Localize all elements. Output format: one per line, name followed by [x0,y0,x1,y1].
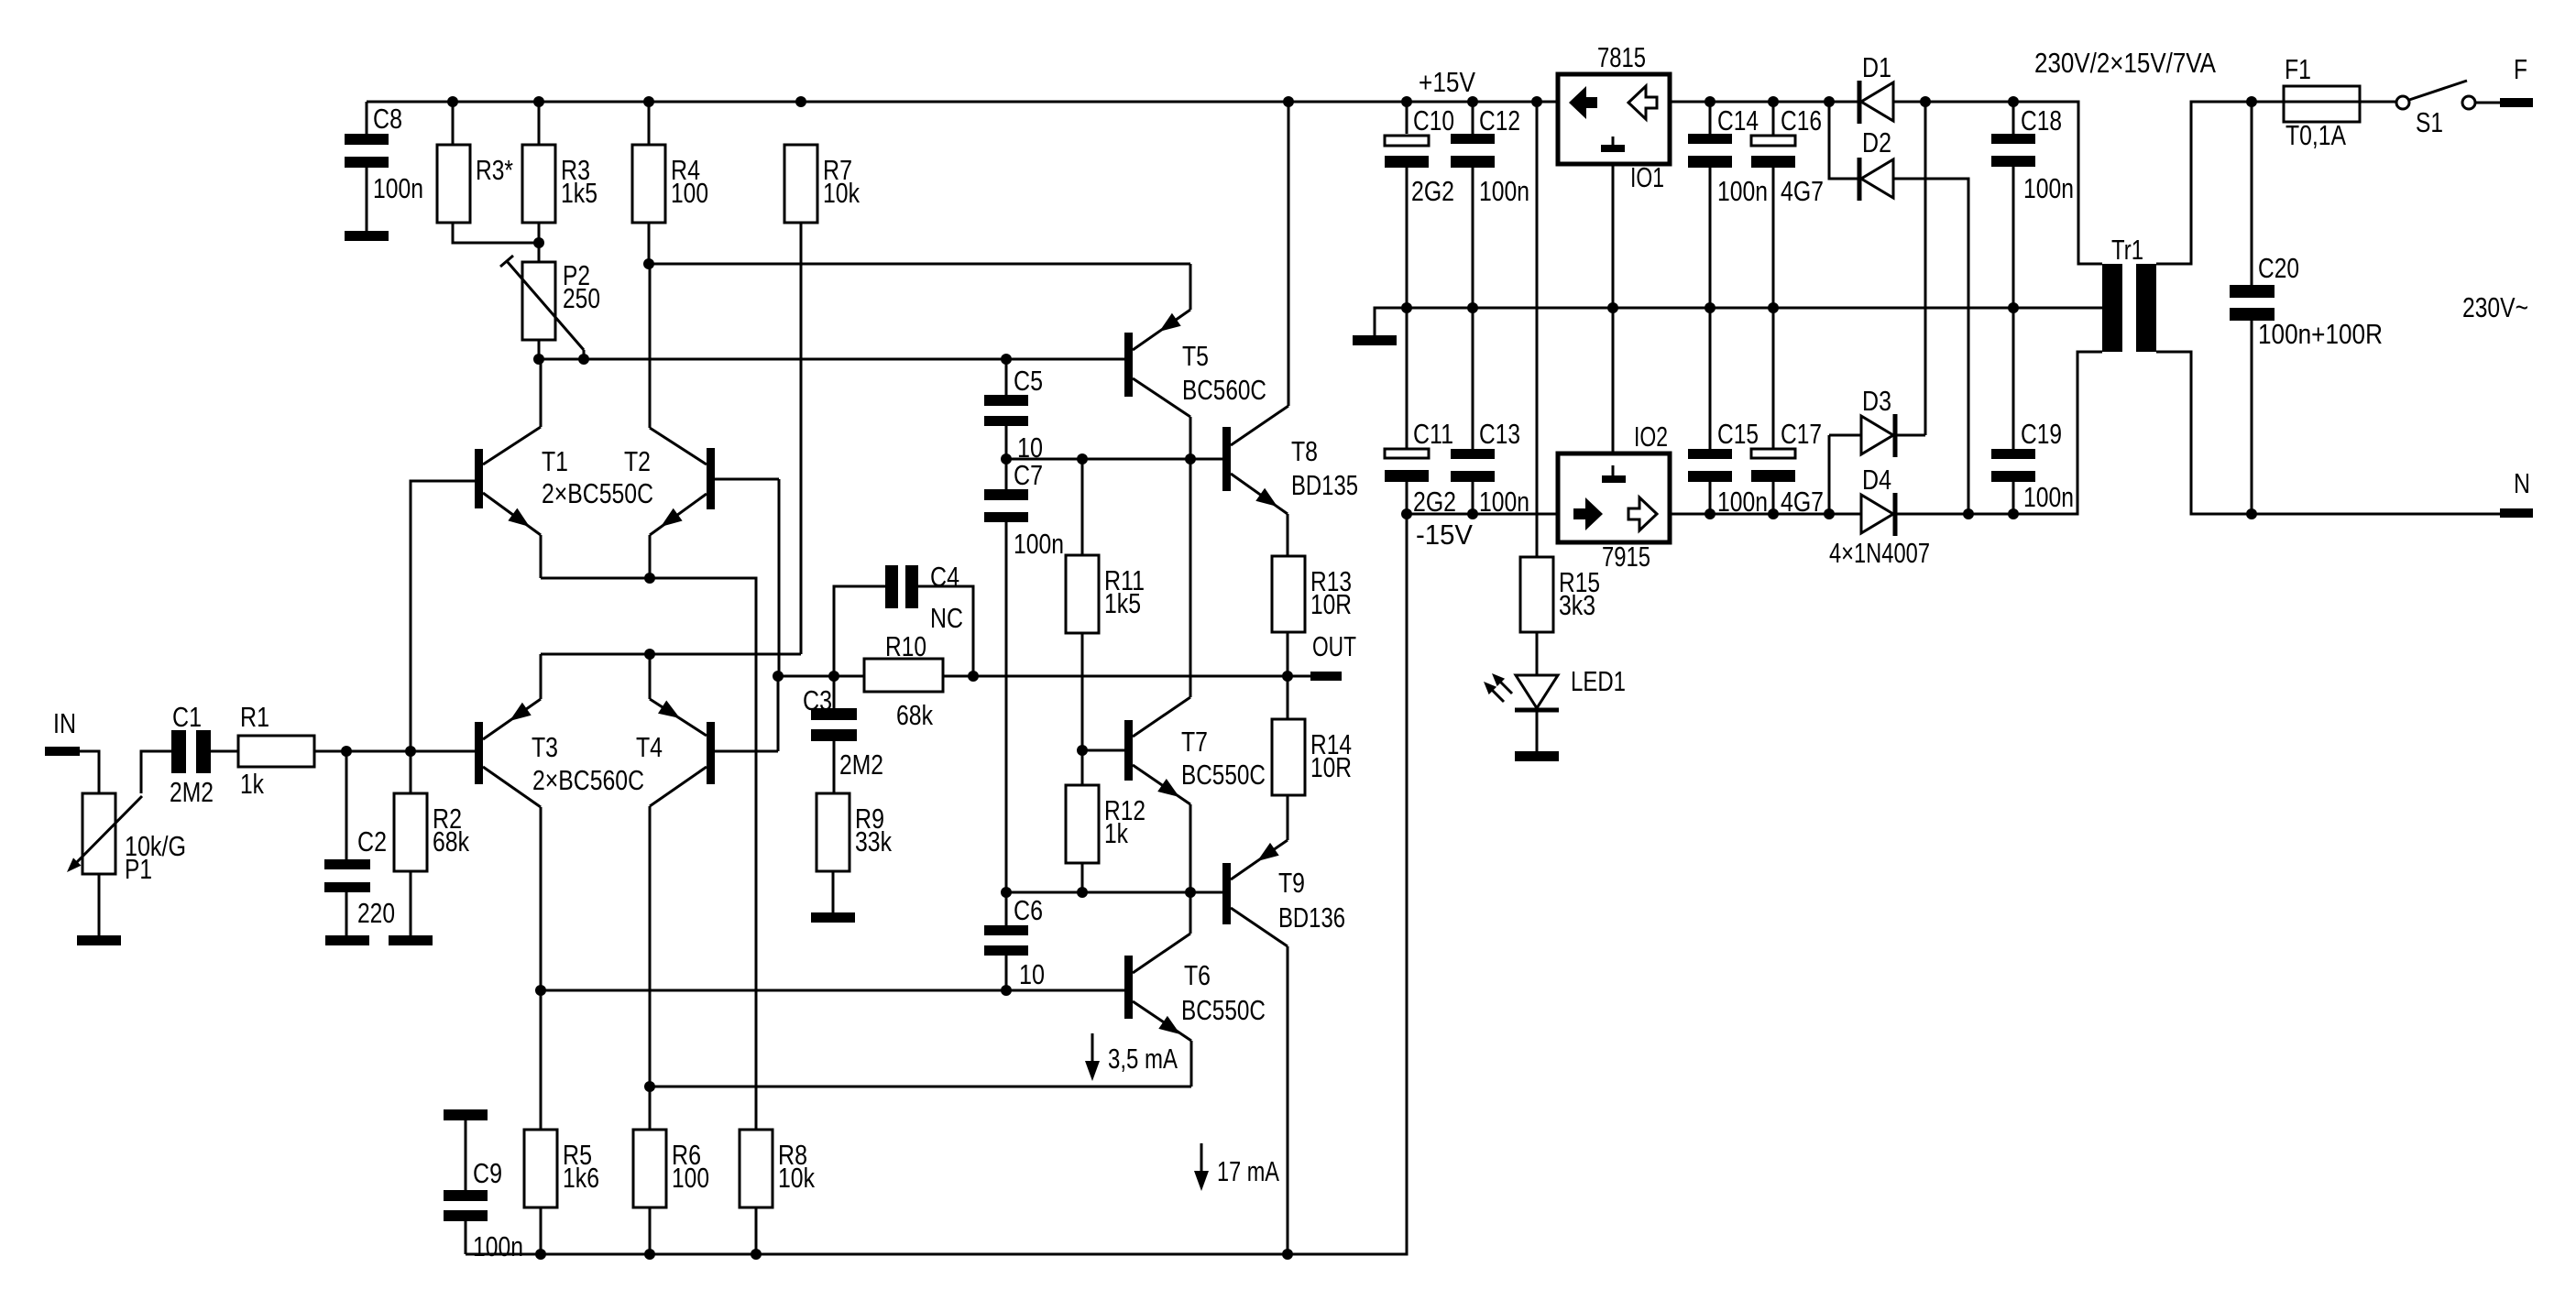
svg-text:33k: 33k [855,825,892,858]
wire -15V rail (7915 output) [1407,513,1558,516]
wire R7 lead down [800,223,803,654]
svg-text:2G2: 2G2 [1411,175,1454,207]
wire T1 base from input node [411,481,475,751]
transistor T4 [636,654,778,806]
switch S1 [2396,81,2475,138]
wire IO1 ground pin [1612,164,1615,308]
wire +15V top rail (amp section) [367,101,1558,104]
wire C18/C19 column [2012,102,2015,514]
svg-text:C13: C13 [1479,418,1520,450]
svg-text:C15: C15 [1717,418,1759,450]
svg-text:C20: C20 [2258,252,2299,284]
ground at C8 [345,231,389,241]
svg-text:C6: C6 [1014,894,1043,926]
junction C4/R10 right node [968,671,979,682]
svg-text:C4: C4 [930,561,959,593]
capacitor C12 [1451,104,1529,207]
svg-text:P1: P1 [125,853,152,885]
transistor T9 [1222,795,1345,1254]
junction R12 bottom [1077,887,1088,898]
resistor R2 [394,793,469,871]
wire LED1 to ground [1536,712,1539,751]
svg-text:D3: D3 [1862,385,1891,417]
resistor R3* [437,145,513,223]
svg-text:C18: C18 [2021,104,2062,137]
junction R3/R3* node [533,237,544,248]
wire D2 cathode to AC2 [1893,179,1968,514]
svg-text:100: 100 [672,1162,709,1194]
capacitor C16 [1751,104,1824,207]
resistor R15 [1520,557,1600,632]
junction T2 base feedback node [773,671,784,682]
wire T6 emitter return line (y1186) [650,1086,1191,1088]
capacitor C18 [1991,104,2074,204]
trimmer P2 [500,256,600,350]
wire C8 stub [366,102,368,231]
svg-text:C11: C11 [1413,418,1453,450]
wire R2 branch [410,751,412,935]
wire T6 base line from T3 collector (y1081) [541,989,1124,992]
wire C2 branch [345,751,348,935]
resistor R11 [1066,555,1145,633]
wire T4 collector down to R6 node [649,806,652,1087]
svg-text:D1: D1 [1862,51,1891,83]
svg-text:10R: 10R [1310,751,1352,783]
svg-text:BC550C: BC550C [1181,759,1266,791]
label T3/T4 type [532,764,644,796]
svg-text:T6: T6 [1184,959,1211,991]
svg-text:100: 100 [671,177,708,209]
label T1/T2 type [542,477,653,509]
svg-text:2×BC560C: 2×BC560C [532,764,644,796]
wire C16/C17 column [1772,102,1775,514]
svg-text:C19: C19 [2021,418,2062,450]
label 230V~ mains [2462,291,2528,323]
svg-text:2M2: 2M2 [170,776,214,808]
svg-text:OUT: OUT [1312,630,1356,662]
diode D3 [1861,385,1895,457]
svg-text:100n: 100n [2023,481,2074,513]
capacitor C14 [1688,104,1768,207]
ground at C2 [325,935,369,945]
resistor R4 [632,145,708,223]
svg-text:68k: 68k [896,699,933,731]
svg-text:1k: 1k [240,768,264,800]
junction dots on ground rail [1401,302,2019,313]
wire C14/C15 column [1709,102,1712,514]
svg-text:C10: C10 [1413,104,1454,137]
capacitor C8 [345,103,423,204]
svg-text:7815: 7815 [1597,41,1646,73]
svg-text:BD136: BD136 [1278,901,1345,934]
transistor T5 [1124,264,1266,459]
svg-text:17 mA: 17 mA [1217,1155,1279,1187]
svg-text:IN: IN [53,707,76,739]
wire R8 bottom stub [755,1207,758,1254]
junction C6 bottom [1001,985,1012,996]
svg-text:1k5: 1k5 [561,177,597,209]
svg-text:T0,1A: T0,1A [2286,119,2346,151]
svg-text:C9: C9 [473,1157,502,1189]
wire C9 stubs [465,1120,467,1254]
svg-text:2G2: 2G2 [1413,486,1456,518]
svg-text:10: 10 [1019,958,1045,990]
transformer Tr1 [2102,234,2156,352]
junction dots on +15V rail [447,96,2257,107]
wire -15V bottom rail of amplifier [466,1253,1288,1256]
svg-text:LED1: LED1 [1571,665,1626,697]
svg-text:-15V: -15V [1416,519,1473,551]
resistor R14 [1272,719,1352,795]
wire R3* top stub [452,102,455,145]
wire AC1 from D1 anode to transformer secondary top [1893,102,2102,264]
svg-text:NC: NC [930,602,963,634]
wire P2 bottom stub [538,340,541,359]
wire R11/R12/T7-base column [1081,459,1084,892]
wire unregulated - rail (7915 input to D4) [1670,513,1861,516]
junction P2 bottom / T1 collector [533,354,544,365]
resistor R10 [864,630,943,731]
resistor R1 [238,701,314,800]
svg-text:1k6: 1k6 [563,1162,599,1194]
wire switch S1 to F terminal [2475,102,2500,104]
resistor R8 [740,1130,815,1207]
svg-text:T7: T7 [1181,726,1208,758]
svg-text:230V~: 230V~ [2462,291,2528,323]
wire R4 stubs [648,102,651,264]
svg-text:1k5: 1k5 [1104,587,1141,619]
wire R3* bottom to R3/P2 junction [453,223,539,243]
wire T9 base line (y974) [1006,891,1222,894]
wire bottom rail to -15V supply [1288,514,1407,1254]
svg-text:BD135: BD135 [1291,469,1358,501]
svg-text:C12: C12 [1479,104,1520,137]
voltage regulator IO1 7815 [1558,41,1670,193]
svg-text:2×BC550C: 2×BC550C [542,477,653,509]
wire D3 cathode to AC1 [1897,102,1925,435]
resistor R3 [522,145,597,223]
svg-text:100n: 100n [1479,486,1529,518]
junction R4 bottom node [643,258,654,269]
wire AC2 from D4 cathode to transformer secondary bottom [1895,352,2102,514]
wire T3/T4 emitter tail to R7 bottom (y714) [541,653,801,656]
svg-text:C14: C14 [1717,104,1759,137]
capacitor C6 [984,894,1045,990]
junction dots on -15V / unregulated minus rail [1401,508,2257,519]
junction R11/R12/T7 base [1077,745,1088,756]
wire C5/C7/C6 column [1005,359,1008,990]
svg-text:D4: D4 [1862,464,1891,496]
wire C3 branch to R9 [833,676,834,912]
transistor T6 [1124,892,1266,1087]
junction T4 collector / R6 / T6 emitter [644,1081,655,1092]
wire IO2 ground pin [1612,308,1615,453]
capacitor C1 [170,701,214,808]
junction input node R2/T1 base [405,746,416,757]
wire C10/C11 column [1406,102,1409,514]
terminal OUT [1310,630,1356,681]
svg-text:100n: 100n [473,1230,523,1262]
svg-text:220: 220 [357,897,395,929]
junction P2 wiper [578,350,589,365]
svg-text:10k: 10k [778,1162,815,1194]
transistor T1 [475,359,568,578]
wire R5 stubs [540,990,543,1254]
svg-text:C17: C17 [1781,418,1822,450]
capacitor C7 [984,459,1064,560]
svg-text:C2: C2 [357,825,387,858]
transistor T3 [475,654,558,990]
wire R15 to LED1 [1536,632,1539,675]
svg-text:3,5 mA: 3,5 mA [1108,1043,1178,1075]
svg-text:4G7: 4G7 [1781,175,1824,207]
svg-text:7915: 7915 [1602,541,1650,573]
svg-text:+15V: +15V [1419,66,1475,98]
svg-text:T3: T3 [532,731,558,763]
junction C6 top [1001,887,1012,898]
junction T5 collector / T8 base [1185,453,1196,464]
svg-text:T4: T4 [636,731,663,763]
wire T5 base line from P2 (y392) [539,358,1124,361]
capacitor C4 [885,561,963,634]
wire D2 anode link [1829,102,1859,179]
ground at LED1 [1515,751,1559,761]
svg-text:1k: 1k [1104,817,1128,849]
resistor R12 [1066,785,1145,863]
capacitor C9 [444,1109,523,1262]
ground at R2 [389,935,433,945]
svg-text:F: F [2514,53,2527,85]
junction feedback/OUT node [1282,671,1293,682]
svg-text:100n: 100n [373,172,423,204]
svg-text:100n: 100n [1717,175,1768,207]
label diode types [1829,537,1930,569]
fuse F1 [2284,53,2360,151]
junction T1/T2 emitter tail [644,573,655,584]
resistor R13 [1272,556,1352,632]
capacitor C2 [324,825,395,929]
wire ground rail (centre tap) [1375,308,2102,335]
resistor R6 [633,1130,709,1207]
resistor R5 [524,1130,599,1207]
LED LED1 [1484,665,1626,710]
transistor T2 [624,264,779,676]
terminal N [2500,467,2533,518]
capacitor C13 [1451,418,1529,518]
capacitor C17 [1751,418,1824,518]
terminal IN [45,707,99,793]
svg-text:4×1N4007: 4×1N4007 [1829,537,1930,569]
wire feedback line OUT to T2/T4 bases (y738) [778,675,1288,678]
svg-text:C3: C3 [803,684,832,716]
capacitor C10 [1385,104,1454,207]
svg-text:S1: S1 [2416,106,2443,138]
ground at R9 [811,912,855,923]
junction dots on amplifier bottom rail [535,1249,1293,1260]
junction C3/C4 node [828,671,839,682]
capacitor C11 [1385,418,1456,518]
ground at P1 [77,935,121,945]
potentiometer P1 [67,751,186,935]
wire transformer primary bottom to N terminal [2156,352,2500,514]
svg-text:2M2: 2M2 [839,748,883,781]
wire input line IN/C1 to T3 base (y820) [211,750,475,753]
wire C20 column [2251,102,2253,514]
svg-text:100n: 100n [1717,486,1768,518]
wire unregulated + rail (7815 input to D1) [1670,101,1859,104]
svg-text:C1: C1 [172,701,202,733]
svg-text:68k: 68k [433,825,469,858]
svg-text:D2: D2 [1862,126,1891,158]
svg-text:100n: 100n [1479,175,1529,207]
svg-text:T9: T9 [1278,867,1305,899]
wire C12/C13 column [1472,102,1474,514]
svg-text:Tr1: Tr1 [2111,234,2143,266]
svg-text:T5: T5 [1182,340,1209,372]
label -15V net [1416,519,1473,551]
junction C5 top [1001,354,1012,365]
capacitor C19 [1991,418,2074,513]
wire T8 base line (y501) [1006,458,1222,461]
resistor R9 [817,793,892,871]
capacitor C5 [984,365,1043,464]
junction input node C2 [341,746,352,757]
svg-text:R1: R1 [240,701,269,733]
wire R15 lead from +15V rail [1536,102,1539,557]
svg-text:T1: T1 [542,445,568,477]
svg-text:BC550C: BC550C [1181,994,1266,1026]
transistor T7 [1082,459,1266,892]
svg-text:C5: C5 [1014,365,1043,397]
svg-text:10k: 10k [823,177,860,209]
svg-text:IO2: IO2 [1634,421,1668,453]
capacitor C20 [2230,252,2383,350]
label transformer rating [2034,47,2216,79]
svg-text:4G7: 4G7 [1781,486,1824,518]
junction R11 top [1077,453,1088,464]
wire C4 bypass around R10 [834,586,973,676]
junction C5/C7 node [1001,453,1012,464]
wire transformer primary top to fuse F1 [2156,102,2397,264]
annotation 17 mA current arrow [1194,1143,1279,1191]
ground symbol at centre-tap rail [1353,335,1397,345]
wire OUT node column R13-R14 [1288,632,1310,719]
wire D3 anode link [1829,435,1861,514]
label +15V net [1419,66,1475,98]
diode D4 [1861,464,1895,536]
svg-text:C16: C16 [1781,104,1822,137]
svg-text:10R: 10R [1310,588,1352,620]
svg-text:100n: 100n [1014,528,1064,560]
svg-text:R10: R10 [885,630,926,662]
svg-text:C8: C8 [373,103,402,135]
junction T7 emitter / T9 base / T6 collector [1185,887,1196,898]
svg-text:IO1: IO1 [1630,161,1664,193]
transistor T8 [1222,102,1358,556]
svg-text:N: N [2514,467,2530,499]
voltage regulator IO2 7915 [1558,421,1670,573]
capacitor C15 [1688,418,1768,518]
annotation 3,5 mA current arrow [1085,1033,1178,1081]
svg-text:T2: T2 [624,445,651,477]
svg-text:C7: C7 [1014,459,1043,491]
wire R3 stubs [538,102,541,262]
svg-text:3k3: 3k3 [1559,589,1595,621]
junction T3/T4 emitter tail [644,649,655,660]
svg-text:F1: F1 [2285,53,2311,85]
svg-text:R3*: R3* [476,154,513,186]
wire T1/T2 emitter tail to R8 [541,578,756,1130]
resistor R7 [784,145,860,223]
wire node R4/T2-collector/T5-emitter (y288) [649,263,1190,266]
svg-text:100n+100R: 100n+100R [2258,318,2383,350]
junction T3 collector / R5 / T6 base line [535,985,546,996]
diode D1 [1859,51,1893,124]
wire R6 stubs [649,1087,652,1254]
svg-text:100n: 100n [2023,172,2074,204]
diode D2 [1859,126,1893,201]
terminal F [2500,53,2533,107]
capacitor C3 [803,684,883,781]
svg-text:230V/2×15V/7VA: 230V/2×15V/7VA [2034,47,2216,79]
svg-text:250: 250 [563,282,600,314]
svg-text:T8: T8 [1291,435,1318,467]
svg-text:BC560C: BC560C [1182,374,1266,406]
